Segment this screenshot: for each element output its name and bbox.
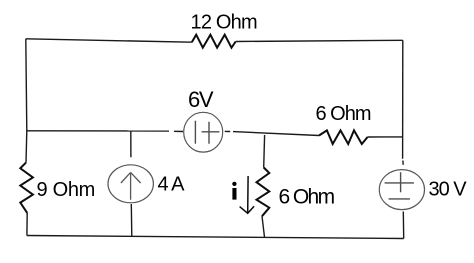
svg-text:6V: 6V: [188, 87, 214, 112]
4A arrow up: [121, 172, 141, 199]
svg-text:6 Ohm: 6 Ohm: [279, 186, 335, 209]
svg-text:12 Ohm: 12 Ohm: [191, 12, 257, 34]
wire: stub above 30V source: [402, 161, 404, 165]
svg-text:6 Ohm: 6 Ohm: [316, 103, 371, 125]
6V left plate bar: [194, 121, 196, 144]
30V minus bar: [389, 198, 410, 200]
svg-text:4 A: 4 A: [158, 174, 186, 196]
wire: middle right segment to right rail: [368, 136, 403, 138]
resistor R2 9 Ohm (vertical zigzag): [20, 163, 33, 213]
6V plus sign: [202, 122, 220, 144]
wire: left bottom segment: [26, 213, 28, 236]
wire: short dash left of 6V source: [174, 130, 183, 132]
wire: stub from middle wire to vertical 6 Ohm: [263, 135, 266, 168]
wire: stub from middle wire to 4A source: [130, 132, 132, 158]
current arrow i (downward): [240, 176, 255, 213]
30V plus sign: [385, 172, 414, 192]
wire: left vertical segment (top to 9 Ohm): [26, 39, 27, 163]
wire: right vertical segment: [402, 40, 404, 158]
current source I1 4 A (circle): [108, 165, 153, 203]
current label i: [232, 182, 236, 200]
voltage source U3 30 V (circle): [379, 170, 424, 210]
wire: top-right horizontal segment: [236, 40, 403, 41]
svg-text:9 Ohm: 9 Ohm: [37, 179, 96, 201]
svg-text:30 V: 30 V: [429, 179, 468, 201]
wire: middle horizontal left segment: [27, 130, 169, 132]
resistor R3 6 Ohm horizontal (zigzag): [319, 130, 368, 144]
wire: middle horizontal right segment to 6 Ohm: [233, 132, 319, 136]
wire: top-left horizontal segment: [26, 39, 192, 42]
voltage source U1 6V (circle): [184, 112, 223, 152]
wire: stub below vertical 6 Ohm: [262, 216, 265, 237]
wire: stub below 4A source: [130, 204, 133, 237]
wire: short dash right of 6V source: [225, 130, 231, 132]
resistor R4 6 Ohm vertical (zigzag): [257, 168, 270, 217]
wire: bottom horizontal segment: [27, 236, 404, 239]
wire: stub below 30V source: [402, 212, 404, 239]
resistor R1 12 Ohm (zigzag): [192, 35, 236, 48]
